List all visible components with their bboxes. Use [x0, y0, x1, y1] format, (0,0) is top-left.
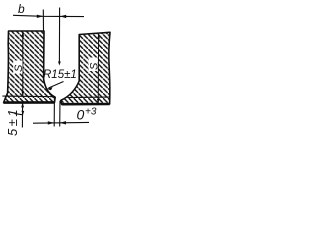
- nose extension line left (x=54): [53, 98, 55, 127]
- extension line right of b going down: [58, 8, 60, 64]
- left plate flange top line: [2, 95, 53, 98]
- arrow 5±1 down tick: [15, 114, 24, 115]
- arrow 0+3 right (points left at x=59.6): [60, 121, 66, 124]
- small arrow end of right extension: [58, 62, 61, 66]
- right plate bottom edge thick: [62, 103, 110, 106]
- arrow b left (points right): [37, 15, 43, 18]
- nose extension line right (x=59.5): [59, 101, 61, 127]
- svg-text:b: b: [18, 2, 25, 16]
- arrow 0+3 left (points right at x=54): [48, 121, 54, 124]
- left plate body: [4, 31, 56, 103]
- arrow b right (points left): [60, 15, 66, 18]
- svg-text:R15±1: R15±1: [43, 69, 77, 81]
- right plate body: [61, 32, 110, 104]
- dimension 5±1 vertical line: [21, 103, 23, 128]
- svg-text:0: 0: [77, 107, 85, 123]
- halo left S: [13, 61, 22, 74]
- S dimension line left: [22, 32, 24, 96]
- arrow 5±1 up: [21, 102, 24, 107]
- dimension 0+3 line: [33, 121, 89, 124]
- S dimension line right: [97, 34, 99, 104]
- leader line R15: [49, 82, 64, 89]
- dimension line b left tail: [13, 15, 60, 16]
- dimension line b right tail: [60, 15, 84, 17]
- left plate bottom edge thick: [4, 101, 55, 104]
- svg-text:S: S: [13, 64, 25, 72]
- svg-text:S: S: [89, 62, 101, 70]
- halo right S: [89, 58, 98, 72]
- svg-text:+3: +3: [85, 107, 97, 118]
- arrow R15 leader: [46, 87, 52, 90]
- right plate flange top line: [68, 96, 110, 99]
- svg-text:5±1: 5±1: [5, 107, 20, 136]
- extension line left of b: [42, 10, 44, 32]
